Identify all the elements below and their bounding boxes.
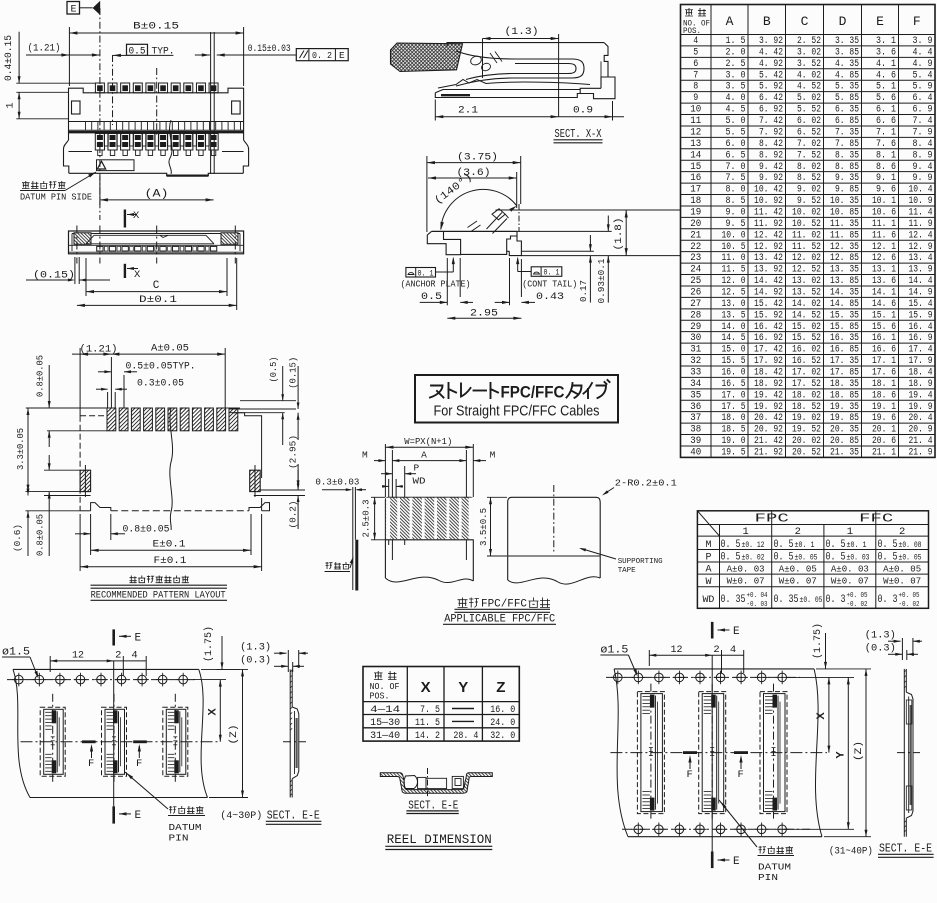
right end block hatched	[221, 233, 238, 245]
datum pin label	[719, 800, 757, 847]
svg-text:19. 1: 19. 1	[872, 401, 896, 413]
svg-text:12. 92: 12. 92	[754, 241, 783, 253]
svg-text:A±0. 03: A±0. 03	[831, 564, 869, 575]
dimension (1.8)	[625, 210, 627, 256]
label DATUM PIN SIDE with leader	[22, 181, 30, 189]
svg-text:REEL DIMENSION: REEL DIMENSION	[387, 832, 492, 847]
svg-text:12. 4: 12. 4	[909, 229, 933, 241]
svg-text:7. 52: 7. 52	[797, 149, 821, 161]
pocket centerline	[427, 768, 429, 796]
svg-text:±0. 1: ±0. 1	[847, 540, 867, 550]
svg-text:8. 35: 8. 35	[835, 149, 859, 161]
svg-text:15. 5: 15. 5	[722, 355, 746, 367]
svg-text:8. 85: 8. 85	[835, 161, 859, 173]
svg-text:6. 1: 6. 1	[876, 104, 896, 116]
svg-text:16. 5: 16. 5	[722, 378, 746, 390]
svg-text:18. 52: 18. 52	[792, 401, 821, 413]
svg-text:28: 28	[690, 309, 701, 321]
svg-text:15. 85: 15. 85	[830, 321, 859, 333]
svg-text:14. 42: 14. 42	[754, 275, 783, 287]
svg-text:(0.5): (0.5)	[269, 357, 279, 383]
svg-text:18: 18	[690, 195, 701, 207]
svg-text:3. 85: 3. 85	[835, 46, 859, 58]
svg-text:6. 4: 6. 4	[913, 92, 933, 104]
svg-text:4. 42: 4. 42	[759, 46, 783, 58]
svg-text:32: 32	[690, 355, 701, 367]
X section marker upper	[124, 210, 126, 228]
svg-text:9: 9	[693, 92, 698, 104]
dimension 0.9	[612, 101, 614, 121]
tape outline	[13, 668, 199, 670]
svg-text:(0.6): (0.6)	[13, 524, 23, 552]
svg-text:17. 1: 17. 1	[872, 355, 896, 367]
outer body rectangle	[69, 231, 244, 254]
svg-text:POS.: POS.	[683, 27, 701, 36]
svg-text:0. 35: 0. 35	[721, 594, 746, 606]
svg-text:4. 85: 4. 85	[835, 69, 859, 81]
svg-text:18. 4: 18. 4	[909, 366, 933, 378]
svg-text:2-R0.2±0.1: 2-R0.2±0.1	[615, 478, 677, 489]
svg-text:9. 4: 9. 4	[913, 161, 933, 173]
svg-text:16. 1: 16. 1	[872, 332, 896, 344]
svg-text:3. 6: 3. 6	[876, 46, 896, 58]
body outline	[432, 230, 518, 232]
svg-text:18. 42: 18. 42	[754, 366, 783, 378]
connector body upper outline	[69, 88, 244, 121]
svg-text:14. 0: 14. 0	[722, 321, 746, 333]
svg-text:9. 1: 9. 1	[876, 172, 896, 184]
contact spring upper	[456, 51, 584, 86]
svg-text:9. 52: 9. 52	[797, 195, 821, 207]
svg-text:5. 6: 5. 6	[876, 92, 896, 104]
svg-text:2: 2	[795, 526, 801, 538]
svg-text:14. 02: 14. 02	[792, 298, 821, 310]
applicable FPC/FFC cable drawing	[315, 436, 677, 625]
svg-text:A: A	[705, 564, 712, 576]
svg-text:4. 5: 4. 5	[726, 104, 746, 116]
svg-text:5. 4: 5. 4	[913, 69, 933, 81]
svg-text:14. 4: 14. 4	[909, 275, 933, 287]
svg-text:13. 52: 13. 52	[792, 286, 821, 298]
svg-text:17. 52: 17. 52	[792, 378, 821, 390]
svg-text:SUPPORTING: SUPPORTING	[618, 558, 663, 566]
svg-text:6: 6	[693, 58, 698, 70]
connector inside pocket	[404, 776, 418, 789]
svg-text:10. 0: 10. 0	[722, 229, 746, 241]
svg-text:12. 85: 12. 85	[830, 252, 859, 264]
svg-text:14. 9: 14. 9	[909, 286, 933, 298]
svg-text:20. 1: 20. 1	[872, 424, 896, 436]
svg-text:X: X	[134, 269, 141, 281]
svg-text:8. 42: 8. 42	[759, 138, 783, 150]
body outline dashed	[80, 415, 104, 417]
svg-text:29: 29	[690, 321, 701, 333]
svg-text:16. 02: 16. 02	[792, 344, 821, 356]
svg-text:20. 85: 20. 85	[830, 435, 859, 447]
svg-text:21. 4: 21. 4	[909, 435, 933, 447]
svg-text:13. 35: 13. 35	[830, 264, 859, 276]
svg-text:±0. 05: ±0. 05	[899, 553, 922, 563]
svg-text:21. 9: 21. 9	[909, 447, 933, 459]
svg-text:20. 42: 20. 42	[754, 412, 783, 424]
svg-text:2. 52: 2. 52	[797, 35, 821, 47]
break wavy line	[169, 120, 172, 174]
svg-text:3.3±0.05: 3.3±0.05	[16, 428, 26, 470]
svg-text:5. 42: 5. 42	[759, 69, 783, 81]
embossed tape pocket section E-E	[380, 768, 492, 850]
svg-text:D±0.1: D±0.1	[139, 294, 177, 306]
svg-text:28. 4: 28. 4	[453, 730, 478, 742]
svg-text:3.5±0.5: 3.5±0.5	[479, 508, 489, 546]
svg-text:15. 4: 15. 4	[909, 298, 933, 310]
svg-text:32. 0: 32. 0	[490, 730, 515, 742]
keystone inner outline	[86, 235, 214, 244]
svg-text:1: 1	[847, 526, 853, 538]
svg-text:34: 34	[690, 378, 701, 390]
svg-text:(2.95): (2.95)	[289, 435, 299, 469]
svg-text:12. 42: 12. 42	[754, 229, 783, 241]
coplanarity frame anchor plate	[406, 268, 436, 278]
svg-text:(0.3): (0.3)	[865, 643, 896, 655]
carrier tape drawing 31-40P	[600, 622, 933, 883]
svg-text:Y: Y	[835, 751, 847, 759]
svg-text:3. 92: 3. 92	[759, 35, 783, 47]
svg-text:33: 33	[690, 366, 701, 378]
contact strip rows	[69, 245, 244, 252]
svg-text:4. 0: 4. 0	[726, 92, 746, 104]
pads row hatched	[107, 408, 238, 431]
svg-text:18. 9: 18. 9	[909, 378, 933, 390]
svg-text:14. 52: 14. 52	[792, 309, 821, 321]
anchor pad left hatched	[80, 470, 91, 491]
svg-text:12. 9: 12. 9	[909, 241, 933, 253]
F feed marks and arrows	[683, 751, 697, 754]
mid centerline	[156, 68, 158, 135]
svg-text:(1.3): (1.3)	[865, 630, 896, 642]
svg-text:9. 0: 9. 0	[726, 206, 746, 218]
svg-text:0. 1: 0. 1	[544, 268, 560, 278]
svg-text:9. 35: 9. 35	[835, 172, 859, 184]
svg-text:18. 0: 18. 0	[722, 412, 746, 424]
svg-text:-0. 02: -0. 02	[899, 601, 920, 609]
svg-text:26: 26	[690, 286, 701, 298]
svg-text:13. 02: 13. 02	[792, 275, 821, 287]
svg-text:11. 0: 11. 0	[722, 252, 746, 264]
svg-text:40: 40	[690, 447, 701, 459]
svg-text:8. 92: 8. 92	[759, 149, 783, 161]
reinforcement label	[326, 562, 333, 569]
FPC edge view strip	[352, 487, 354, 590]
svg-text:19. 85: 19. 85	[830, 412, 859, 424]
front view of FPC connector	[4, 1, 348, 220]
svg-text:11. 9: 11. 9	[909, 218, 933, 230]
svg-text:SECT. E-E: SECT. E-E	[267, 810, 320, 823]
svg-text:1: 1	[6, 102, 17, 108]
svg-text:F: F	[687, 769, 693, 781]
svg-text:16. 6: 16. 6	[872, 344, 896, 356]
svg-text:±0. 1: ±0. 1	[795, 540, 815, 550]
svg-text:15. 35: 15. 35	[830, 309, 859, 321]
svg-text:20. 35: 20. 35	[830, 424, 859, 436]
mounting hole right	[232, 101, 241, 114]
svg-text:M: M	[362, 450, 368, 461]
svg-text:X: X	[133, 210, 140, 222]
svg-text:15. 9: 15. 9	[909, 309, 933, 321]
svg-text:6. 0: 6. 0	[726, 138, 746, 150]
svg-text:F: F	[913, 14, 921, 29]
right latch profile	[601, 43, 608, 89]
tolerance table FPC/FFC	[697, 511, 928, 609]
svg-text:M: M	[705, 539, 711, 551]
svg-text:APPLICABLE FPC/FFC: APPLICABLE FPC/FFC	[444, 613, 555, 625]
svg-text:18. 5: 18. 5	[722, 424, 746, 436]
svg-text:0. 5: 0. 5	[774, 539, 794, 551]
svg-text:9. 92: 9. 92	[759, 172, 783, 184]
svg-text:13. 42: 13. 42	[754, 252, 783, 264]
caption: recommended pattern (jp)	[130, 576, 137, 583]
svg-text:W±0. 07: W±0. 07	[883, 576, 921, 587]
svg-text:B±0.15: B±0.15	[133, 22, 179, 33]
svg-text:(0.15): (0.15)	[289, 357, 299, 389]
svg-text:(3.75): (3.75)	[457, 152, 498, 164]
svg-text:39: 39	[690, 435, 701, 447]
svg-text:4. 92: 4. 92	[759, 58, 783, 70]
svg-text:14. 92: 14. 92	[754, 286, 783, 298]
svg-text:(31~40P): (31~40P)	[829, 846, 873, 858]
svg-text:7. 5: 7. 5	[726, 172, 746, 184]
svg-text:8. 4: 8. 4	[913, 138, 933, 150]
svg-text:25: 25	[690, 275, 701, 287]
dimension B±0.15	[69, 32, 243, 34]
tape outline	[614, 668, 814, 670]
svg-text:M: M	[490, 450, 496, 461]
svg-text:Y: Y	[458, 679, 468, 696]
svg-text:11. 52: 11. 52	[792, 241, 821, 253]
svg-text:(1.3): (1.3)	[505, 26, 539, 38]
svg-text:6. 5: 6. 5	[726, 149, 746, 161]
svg-text:5. 5: 5. 5	[726, 126, 746, 138]
svg-text:4. 1: 4. 1	[876, 58, 896, 70]
svg-text:14. 5: 14. 5	[722, 332, 746, 344]
hinge verticals	[518, 204, 520, 232]
svg-text:11. 92: 11. 92	[754, 218, 783, 230]
dimension 0.5 TYP. boxed	[127, 44, 148, 55]
svg-text:12. 0: 12. 0	[722, 275, 746, 287]
svg-text:F: F	[88, 758, 94, 770]
svg-text:9. 02: 9. 02	[797, 184, 821, 196]
dimension 0.17	[589, 235, 591, 251]
svg-text:E: E	[70, 5, 76, 16]
svg-text:7: 7	[693, 69, 698, 81]
centerline of right piece	[553, 485, 555, 552]
svg-text:0.9: 0.9	[573, 105, 593, 117]
svg-text:17. 85: 17. 85	[830, 366, 859, 378]
svg-text:15. 02: 15. 02	[792, 321, 821, 333]
svg-text:PIN: PIN	[169, 833, 189, 844]
svg-text:2.1: 2.1	[458, 105, 478, 117]
svg-text:+0. 05: +0. 05	[847, 592, 868, 600]
svg-text:17. 0: 17. 0	[722, 389, 746, 401]
svg-text:17. 6: 17. 6	[872, 366, 896, 378]
svg-text:24: 24	[690, 264, 701, 276]
svg-text:2: 2	[899, 526, 905, 538]
svg-text:15. 6: 15. 6	[872, 321, 896, 333]
parallelism tolerance frame // 0.2 E	[296, 49, 348, 61]
svg-text:12: 12	[690, 126, 701, 138]
svg-text:13. 4: 13. 4	[909, 252, 933, 264]
svg-text:19. 35: 19. 35	[830, 401, 859, 413]
anchor pad right hatched	[250, 470, 261, 491]
svg-text:18. 6: 18. 6	[872, 389, 896, 401]
svg-text:W±0. 07: W±0. 07	[779, 576, 817, 587]
svg-text:17. 02: 17. 02	[792, 366, 821, 378]
svg-text:F: F	[738, 769, 744, 781]
svg-text:0.43: 0.43	[536, 291, 564, 303]
svg-text:21. 42: 21. 42	[754, 435, 783, 447]
svg-text:10. 02: 10. 02	[792, 206, 821, 218]
svg-text:2. 0: 2. 0	[726, 46, 746, 58]
svg-text:FPC: FPC	[755, 512, 789, 526]
svg-text:11. 6: 11. 6	[872, 229, 896, 241]
svg-text:E: E	[733, 856, 740, 868]
svg-text:15. 92: 15. 92	[754, 309, 783, 321]
dimension table for NO. OF POS. 4-40 columns A-F	[681, 5, 936, 459]
svg-text:13: 13	[690, 138, 701, 150]
svg-text:13. 0: 13. 0	[722, 298, 746, 310]
svg-text:20. 4: 20. 4	[909, 412, 933, 424]
svg-text:11. 02: 11. 02	[792, 229, 821, 241]
svg-text:6. 92: 6. 92	[759, 104, 783, 116]
svg-text:7. 85: 7. 85	[835, 138, 859, 150]
datum pin marker rectangle	[97, 160, 135, 171]
svg-text:4: 4	[693, 35, 698, 47]
E section marker top	[711, 622, 714, 639]
svg-text:11: 11	[690, 115, 701, 127]
dimension 2.1	[434, 100, 436, 121]
svg-text:19. 42: 19. 42	[754, 389, 783, 401]
svg-text:X: X	[421, 679, 431, 696]
SECT E-E side strip (31-40P)	[903, 669, 905, 837]
supporting tape line	[508, 555, 601, 557]
svg-text:E: E	[135, 810, 142, 822]
svg-text:0. 2: 0. 2	[312, 50, 332, 61]
svg-text:0. 5: 0. 5	[774, 552, 794, 564]
connector top shell	[447, 43, 604, 47]
svg-text:13. 6: 13. 6	[872, 275, 896, 287]
comb row of slots	[69, 122, 244, 133]
section vertical line right of 1.3	[558, 34, 560, 117]
svg-text:20. 52: 20. 52	[792, 447, 821, 459]
svg-text:27: 27	[690, 298, 701, 310]
svg-text:12: 12	[72, 650, 84, 662]
svg-text:0. 3: 0. 3	[826, 594, 846, 606]
section X-X view of connector with FPC inserted	[391, 26, 625, 143]
svg-text:E: E	[339, 50, 345, 61]
svg-text:21. 1: 21. 1	[872, 447, 896, 459]
svg-text:2: 2	[713, 644, 719, 656]
svg-text:16. 0: 16. 0	[490, 704, 515, 716]
smt reference lines right	[496, 209, 682, 211]
svg-text:14. 85: 14. 85	[830, 298, 859, 310]
svg-text:17. 4: 17. 4	[909, 344, 933, 356]
svg-text:18. 1: 18. 1	[872, 378, 896, 390]
svg-text:W: W	[705, 576, 712, 588]
svg-text:0.3±0.05: 0.3±0.05	[137, 379, 184, 390]
svg-text:4: 4	[131, 650, 137, 662]
svg-text:10. 92: 10. 92	[754, 195, 783, 207]
svg-text:16. 42: 16. 42	[754, 321, 783, 333]
top terminal row	[95, 83, 218, 93]
svg-text:7. 0: 7. 0	[726, 161, 746, 173]
svg-text:36: 36	[690, 401, 701, 413]
svg-text:11. 5: 11. 5	[722, 264, 746, 276]
svg-text:10: 10	[690, 104, 701, 116]
connector centerlines	[52, 694, 54, 784]
svg-text:+0. 05: +0. 05	[899, 592, 920, 600]
svg-text:WD: WD	[413, 476, 426, 487]
svg-text:6. 52: 6. 52	[797, 126, 821, 138]
svg-text:21. 35: 21. 35	[830, 447, 859, 459]
carrier tape drawing 4-30P	[2, 626, 321, 844]
svg-text:P: P	[413, 463, 419, 474]
bottom edge	[69, 173, 244, 175]
svg-text:0.5±0.05: 0.5±0.05	[126, 362, 173, 373]
svg-text:4. 35: 4. 35	[835, 58, 859, 70]
svg-text:A: A	[421, 450, 427, 461]
connectors on tape	[40, 707, 65, 776]
sprocket holes	[12, 673, 190, 687]
pad row extension lines	[26, 407, 107, 409]
svg-text:NO. OF: NO. OF	[370, 682, 400, 692]
svg-text:5. 1: 5. 1	[876, 81, 896, 93]
svg-text:4. 6: 4. 6	[876, 69, 896, 81]
svg-text:13. 85: 13. 85	[830, 275, 859, 287]
svg-text:2: 2	[115, 650, 121, 662]
svg-text:PIN: PIN	[758, 872, 778, 883]
svg-text:(1.75): (1.75)	[203, 626, 215, 662]
connectors on tape	[637, 692, 664, 814]
svg-text:5: 5	[693, 46, 698, 58]
svg-text:17. 35: 17. 35	[830, 355, 859, 367]
svg-text:F±0.1: F±0.1	[154, 555, 187, 567]
pin1 centerline	[99, 8, 101, 220]
svg-text:W±0. 07: W±0. 07	[727, 576, 765, 587]
svg-text:0. 5: 0. 5	[826, 539, 846, 551]
svg-text:10. 52: 10. 52	[792, 218, 821, 230]
side section view with actuator open 140 deg	[401, 152, 682, 320]
svg-text:2. 5: 2. 5	[726, 58, 746, 70]
svg-text:16. 35: 16. 35	[830, 332, 859, 344]
E section marker bottom	[711, 852, 714, 869]
svg-text:0. 5: 0. 5	[721, 552, 741, 564]
mounting hole left	[72, 101, 81, 114]
svg-text:A: A	[726, 14, 734, 29]
svg-text:30: 30	[690, 332, 701, 344]
svg-text:7. 1: 7. 1	[876, 126, 896, 138]
svg-text:(Z): (Z)	[228, 725, 240, 745]
svg-text:11. 5: 11. 5	[415, 717, 440, 729]
svg-text:X: X	[815, 712, 827, 720]
svg-text:3. 1: 3. 1	[876, 35, 896, 47]
svg-text:14. 1: 14. 1	[872, 286, 896, 298]
svg-text:+0. 04: +0. 04	[747, 592, 768, 600]
svg-text:15: 15	[690, 161, 701, 173]
svg-text:12. 52: 12. 52	[792, 264, 821, 276]
svg-text:(1.21): (1.21)	[28, 43, 61, 55]
svg-text:A±0.05: A±0.05	[151, 344, 189, 355]
center break wavy line	[170, 408, 173, 530]
svg-text:12. 02: 12. 02	[792, 252, 821, 264]
